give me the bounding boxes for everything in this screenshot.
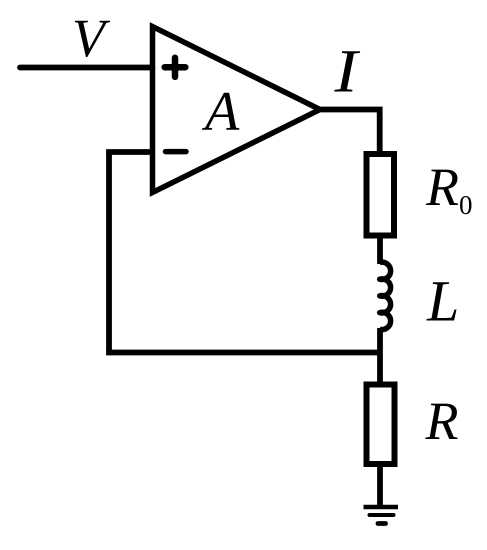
inductor L coil [380,262,391,329]
resistor R body [367,385,395,465]
svg-text:R0: R0 [425,157,473,220]
op-amp A triangle [153,27,321,193]
op-amp plus input sign [165,58,186,77]
wire feedback from minus input down and right [109,152,380,353]
svg-text:A: A [201,81,240,143]
resistor R0 body [367,154,395,236]
wire V input [20,65,153,71]
svg-text:V: V [72,8,111,68]
svg-text:I: I [333,38,361,105]
op-amp minus input sign [166,149,187,155]
svg-text:L: L [426,269,459,334]
wire L to R with feedback junction [377,328,383,382]
wire R0 to L [377,235,383,264]
svg-text:R: R [425,391,459,451]
wire op-amp output to R0 [318,110,380,153]
wire R to ground [377,464,383,506]
ground symbol [364,507,399,524]
